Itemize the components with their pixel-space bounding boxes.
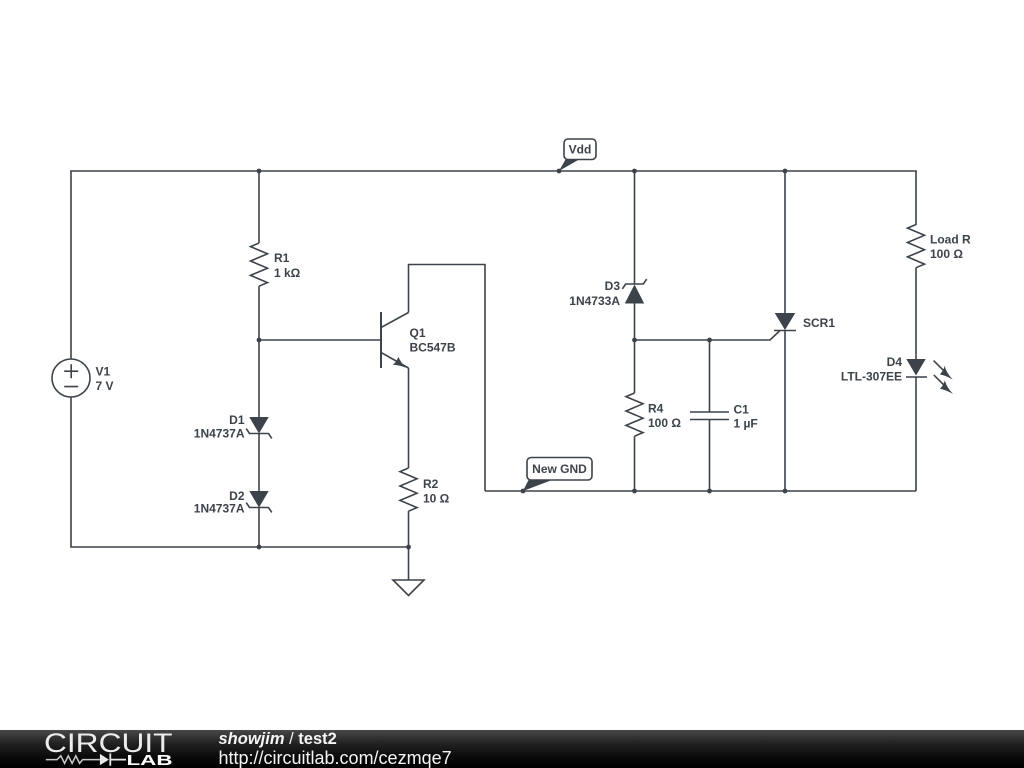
- wire C1 top: [709, 340, 711, 412]
- svg-text:D4: D4: [887, 355, 903, 369]
- net flag New GND: [521, 458, 592, 494]
- svg-text:showjim / test2: showjim / test2: [219, 730, 337, 748]
- footer url: [219, 748, 452, 768]
- node dot SCR top: [783, 169, 788, 174]
- wire Vdd to Load R: [915, 171, 917, 225]
- wire R2 to bottom rail: [408, 511, 410, 547]
- capacitor C1: [690, 403, 758, 431]
- LED D4: [841, 355, 953, 394]
- node dot SCR bottom: [783, 489, 788, 494]
- net flag Vdd: [557, 139, 596, 173]
- zener diode D3: [569, 279, 646, 308]
- svg-text:C1: C1: [734, 403, 750, 417]
- svg-text:Load R: Load R: [930, 233, 971, 247]
- svg-text:1 µF: 1 µF: [734, 417, 758, 431]
- svg-text:Q1: Q1: [410, 326, 426, 340]
- wire to ground: [408, 547, 410, 580]
- wire R1 to D1: [258, 286, 260, 417]
- CircuitLab logo: [44, 728, 173, 768]
- svg-text:New GND: New GND: [532, 462, 587, 476]
- node dot R1 top: [257, 169, 262, 174]
- wire Vdd rail to R1: [258, 171, 260, 243]
- svg-text:1N4733A: 1N4733A: [569, 294, 620, 308]
- wire Vdd to D3: [634, 171, 636, 284]
- svg-text:1N4737A: 1N4737A: [194, 427, 245, 441]
- wire gate line: [635, 331, 781, 341]
- wire R4 to rail: [634, 436, 636, 491]
- wire D1 to D2: [258, 434, 260, 492]
- node dot C1 bottom: [707, 489, 712, 494]
- svg-text:100 Ω: 100 Ω: [930, 247, 963, 261]
- wire gate node to R4: [634, 340, 636, 393]
- transistor Q1: [381, 312, 456, 368]
- wire V1 to bottom rail: [70, 397, 72, 547]
- svg-text:http://circuitlab.com/cezmqe7: http://circuitlab.com/cezmqe7: [219, 748, 452, 768]
- node dot R4 bottom: [632, 489, 637, 494]
- wire D4 to rail: [915, 377, 917, 491]
- svg-text:Vdd: Vdd: [569, 143, 592, 157]
- zener diode D1: [194, 413, 272, 441]
- wire Vdd to SCR: [784, 171, 786, 313]
- wire collector run: [409, 265, 486, 492]
- wire C1 bottom: [709, 420, 711, 492]
- resistor R2: [400, 468, 450, 511]
- wire SCR to rail: [784, 331, 786, 492]
- resistor R1: [251, 243, 301, 286]
- svg-text:D3: D3: [605, 279, 621, 293]
- svg-text:7 V: 7 V: [96, 379, 114, 393]
- node dot D3 top: [632, 169, 637, 174]
- svg-text:V1: V1: [96, 365, 111, 379]
- node dot R2 bottom: [406, 545, 411, 550]
- wire left rail top: [70, 171, 72, 359]
- node dot gate left: [632, 338, 637, 343]
- wire D3 to gate node: [634, 304, 636, 341]
- svg-text:100 Ω: 100 Ω: [648, 416, 681, 430]
- svg-text:R1: R1: [274, 251, 290, 265]
- svg-text:BC547B: BC547B: [410, 341, 456, 355]
- svg-text:R2: R2: [423, 477, 439, 491]
- svg-text:1 kΩ: 1 kΩ: [274, 266, 301, 280]
- resistor Load R: [908, 225, 971, 268]
- node dot D2 bottom: [257, 545, 262, 550]
- zener diode D2: [194, 489, 272, 516]
- footer bar: [0, 730, 1024, 768]
- wire Load R to D4: [915, 268, 917, 359]
- svg-text:R4: R4: [648, 402, 664, 416]
- svg-text:LTL-307EE: LTL-307EE: [841, 370, 902, 384]
- ground: [393, 580, 424, 596]
- wire D2 to bottom rail: [258, 508, 260, 548]
- node dot base node: [257, 338, 262, 343]
- svg-text:10 Ω: 10 Ω: [423, 492, 450, 506]
- node dot C1 top: [707, 338, 712, 343]
- svg-text:SCR1: SCR1: [803, 316, 835, 330]
- svg-text:D1: D1: [229, 413, 245, 427]
- svg-text:LAB: LAB: [127, 752, 173, 768]
- wire base: [259, 339, 381, 341]
- SCR SCR1: [774, 313, 835, 331]
- resistor R4: [626, 393, 681, 436]
- wire New GND rail: [485, 490, 916, 492]
- svg-text:1N4737A: 1N4737A: [194, 502, 245, 516]
- wire bottom-left rail: [70, 546, 408, 548]
- voltage source V1: [52, 359, 114, 397]
- wire top rail: [70, 170, 917, 172]
- footer title: [219, 730, 337, 748]
- wire emitter to R2: [408, 368, 410, 468]
